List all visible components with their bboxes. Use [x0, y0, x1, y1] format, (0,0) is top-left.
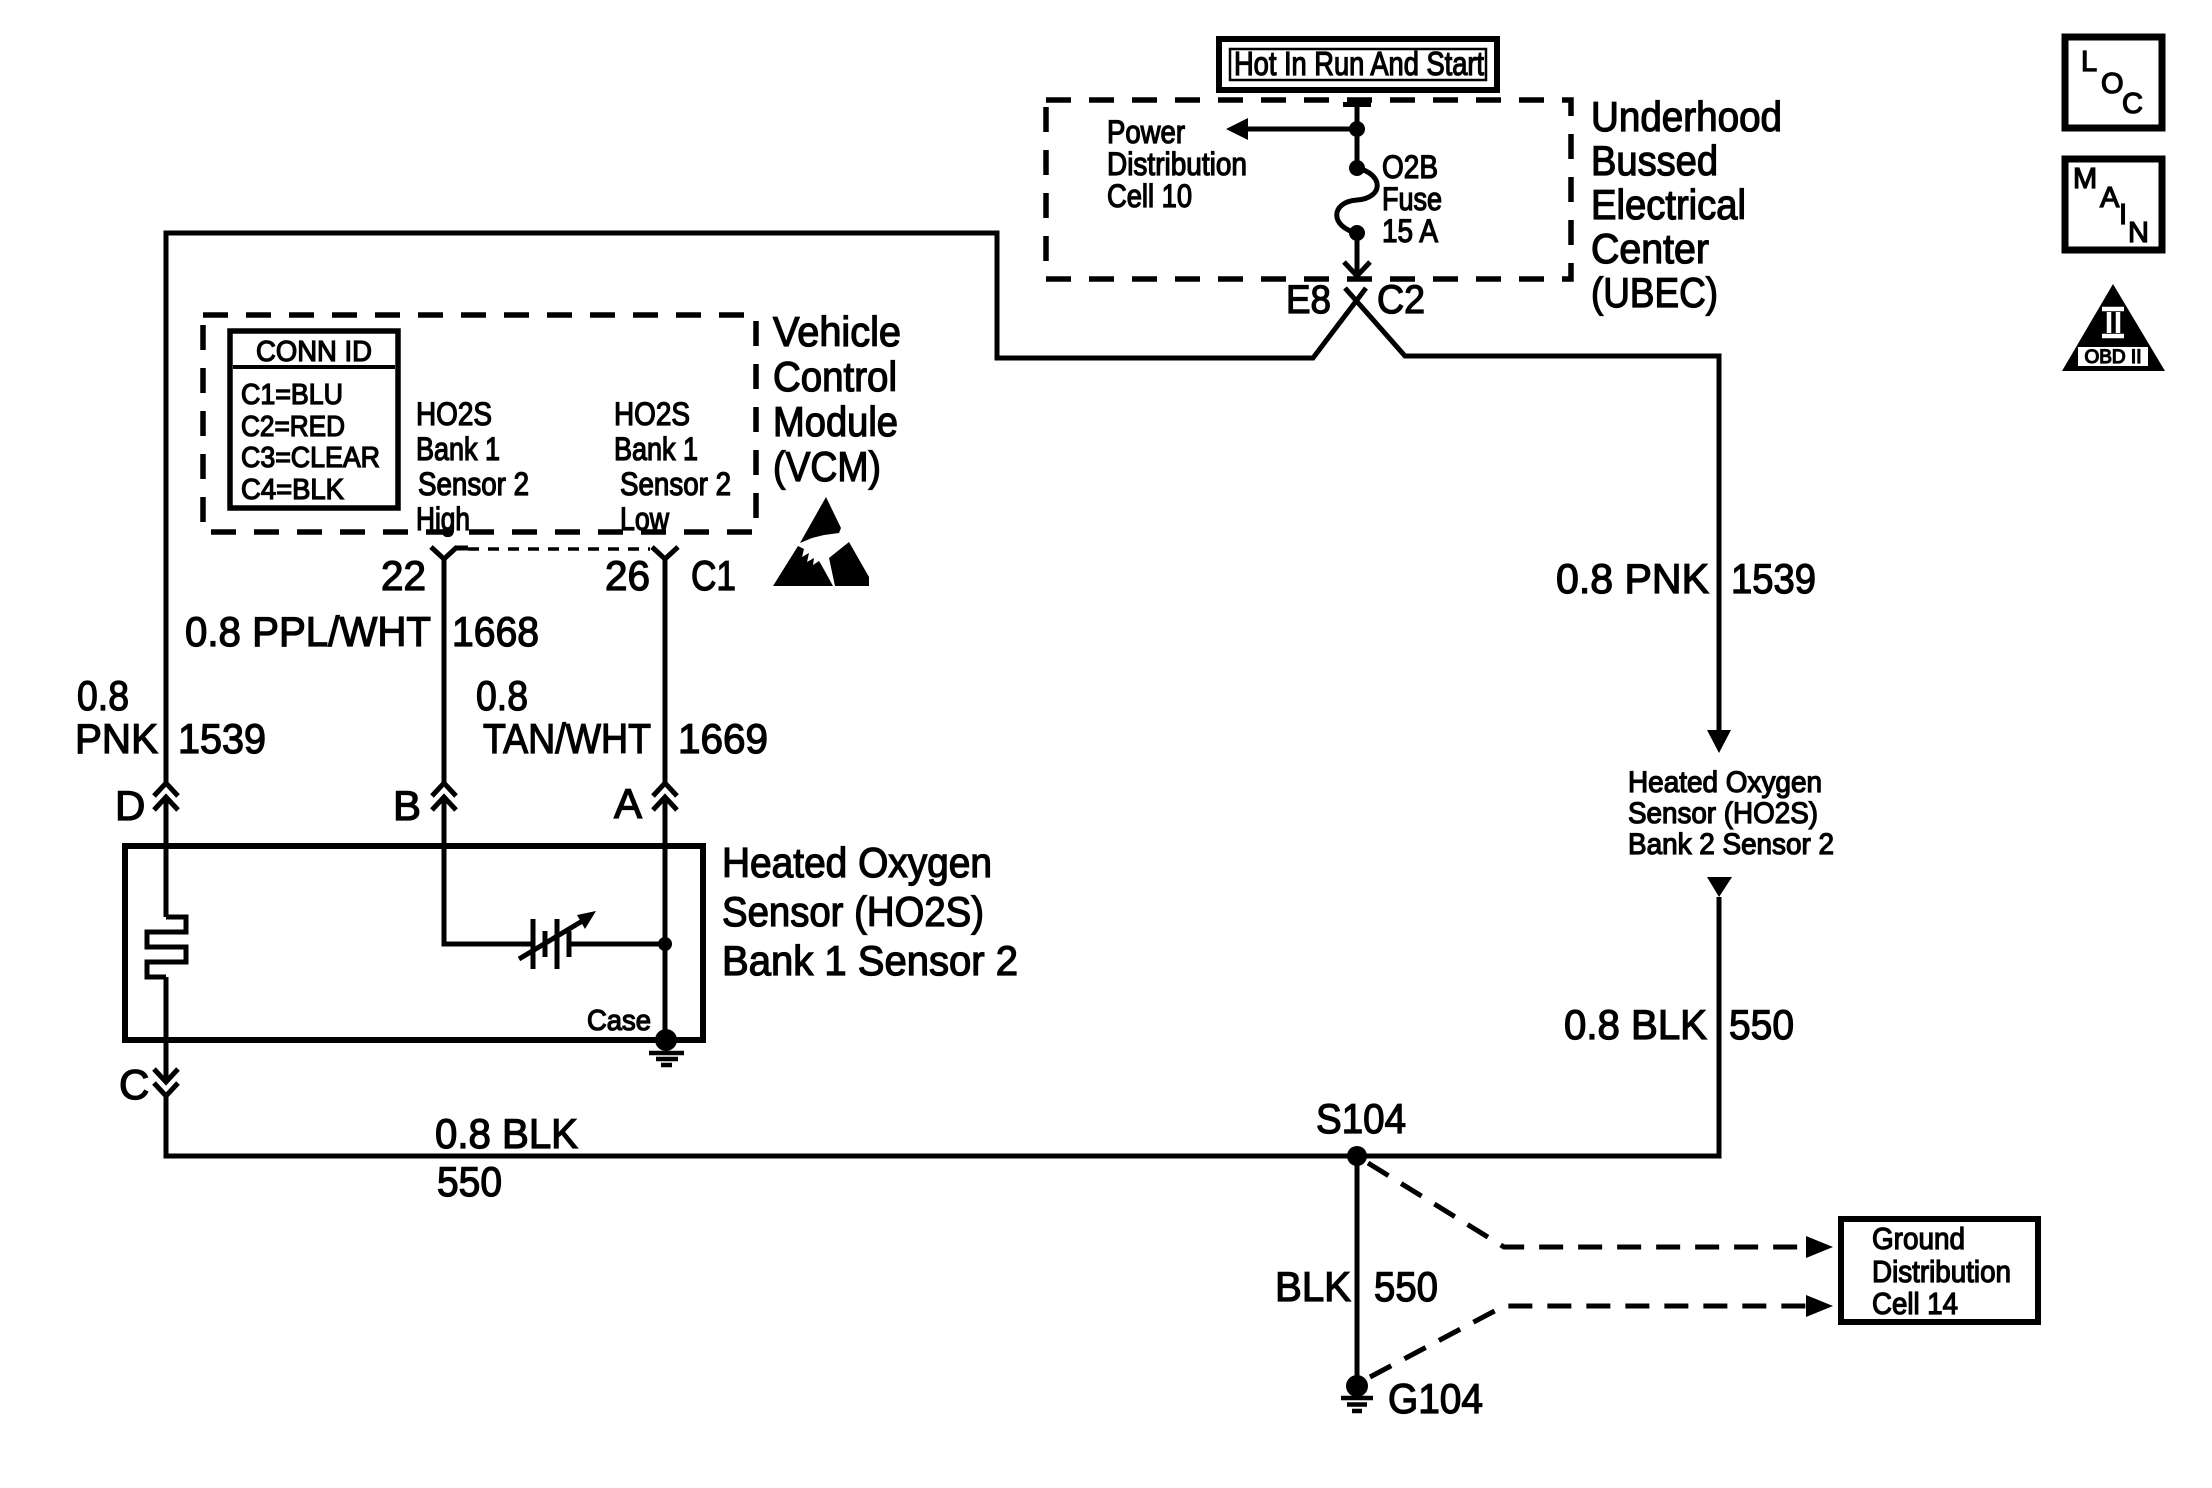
connector triangle resume below HO2S bank2 label	[1707, 877, 1732, 897]
wire left branch from E8/C2 splice down-left, across top, down left rail to pin D	[166, 233, 1366, 783]
svg-text:C2: C2	[1377, 278, 1425, 322]
svg-text:26: 26	[605, 552, 650, 599]
VCM dashed box	[203, 315, 756, 532]
wire S104 to G104	[1355, 1156, 1360, 1378]
arrowhead dashed branch 2 into ground distribution box	[1806, 1295, 1833, 1317]
svg-text:Distribution: Distribution	[1107, 146, 1247, 182]
wire D rail inside box top portion	[164, 797, 169, 917]
heater element HO2S bank1	[147, 917, 186, 977]
svg-text:550: 550	[437, 1158, 502, 1205]
Hot In Run And Start box	[1219, 39, 1497, 90]
open arrowhead at UBEC exit	[1344, 262, 1370, 276]
CONN ID table box	[230, 331, 398, 508]
CONN ID rows	[241, 379, 380, 506]
svg-text:O2B: O2B	[1382, 149, 1438, 185]
svg-text:I: I	[2119, 199, 2127, 231]
svg-text:A: A	[614, 780, 642, 827]
junction dot S104	[1347, 1146, 1367, 1166]
svg-text:Sensor (HO2S): Sensor (HO2S)	[1628, 797, 1818, 830]
sensor element plates	[533, 919, 569, 969]
arrowhead down into HO2S bank2 label	[1707, 730, 1731, 753]
HO2S bank1 box	[125, 846, 703, 1040]
svg-text:Hot In Run And Start: Hot In Run And Start	[1234, 45, 1484, 82]
svg-text:0.8 PNK: 0.8 PNK	[1556, 555, 1709, 602]
dashed wire S104 to ground distribution cell	[1368, 1163, 1806, 1247]
icon LOC	[2065, 37, 2162, 128]
fuse terminal dot top	[1349, 160, 1365, 176]
label Heated Oxygen Sensor (HO2S) Bank 2 Sensor 2	[1628, 766, 1834, 861]
label Power Distribution Cell 10	[1107, 114, 1247, 214]
svg-text:(VCM): (VCM)	[773, 443, 881, 490]
svg-text:Low: Low	[620, 501, 670, 537]
svg-text:C2=RED: C2=RED	[241, 411, 345, 443]
connector chevrons pin B	[432, 783, 456, 810]
svg-text:Bank 1 Sensor 2: Bank 1 Sensor 2	[722, 937, 1018, 984]
svg-text:Underhood: Underhood	[1591, 93, 1782, 140]
icon MAIN	[2065, 159, 2162, 250]
svg-text:Heated Oxygen: Heated Oxygen	[722, 839, 992, 886]
svg-text:Control: Control	[773, 353, 897, 400]
svg-text:Vehicle: Vehicle	[773, 308, 901, 355]
svg-text:0.8 BLK: 0.8 BLK	[1564, 1001, 1707, 1048]
svg-text:C1=BLU: C1=BLU	[241, 379, 343, 411]
wire A-pin 26 stem	[663, 559, 668, 783]
UBEC dashed box	[1046, 100, 1571, 279]
fuse terminal dot bottom	[1349, 225, 1365, 241]
svg-text:Power: Power	[1107, 114, 1185, 150]
svg-text:BLK: BLK	[1275, 1263, 1351, 1310]
arrowhead into power distribution (left)	[1226, 118, 1248, 140]
svg-text:Sensor (HO2S): Sensor (HO2S)	[722, 888, 984, 935]
wire T-bar at UBEC top	[1343, 102, 1371, 107]
svg-text:1539: 1539	[178, 715, 266, 762]
svg-text:Fuse: Fuse	[1382, 181, 1442, 217]
connector chevrons pin A	[653, 783, 677, 810]
svg-text:Cell 10: Cell 10	[1107, 178, 1192, 214]
wire sensor element to case node	[569, 942, 665, 947]
svg-text:Bank 1: Bank 1	[416, 431, 500, 467]
svg-text:TAN/WHT: TAN/WHT	[483, 715, 651, 762]
svg-text:CONN ID: CONN ID	[256, 336, 372, 368]
sensor variable arrow	[519, 920, 584, 959]
svg-text:Case: Case	[587, 1005, 651, 1037]
CONN ID header line	[233, 365, 395, 369]
svg-text:G104: G104	[1388, 1375, 1483, 1422]
svg-text:0.8: 0.8	[476, 672, 528, 719]
svg-text:Distribution: Distribution	[1872, 1254, 2011, 1289]
svg-text:C1: C1	[691, 552, 736, 599]
svg-text:C: C	[2122, 88, 2143, 120]
svg-text:1539: 1539	[1731, 555, 1816, 602]
svg-text:22: 22	[381, 552, 426, 599]
ground G104 dot	[1346, 1375, 1368, 1397]
svg-text:15 A: 15 A	[1382, 213, 1439, 249]
svg-text:M: M	[2073, 163, 2097, 195]
label Heated Oxygen Sensor (HO2S) Bank 1 Sensor 2	[722, 839, 1018, 984]
wire right branch from splice to HO2S bank2 feed	[1345, 288, 1719, 745]
connector chevrons pin D	[154, 783, 178, 810]
svg-text:D: D	[115, 782, 145, 829]
svg-text:B: B	[393, 782, 421, 829]
label Underhood Bussed Electrical Center (UBEC)	[1591, 93, 1782, 316]
svg-text:550: 550	[1374, 1263, 1438, 1310]
case ground bars	[649, 1053, 684, 1065]
C1 connector dashed boundary between pins 22 and 26	[468, 547, 650, 551]
junction dot at fuse branch	[1349, 121, 1365, 137]
junction dot sensor to case wire	[658, 937, 672, 951]
svg-text:1668: 1668	[452, 608, 539, 655]
svg-text:E8: E8	[1286, 278, 1331, 322]
svg-text:1669: 1669	[678, 715, 768, 762]
svg-text:(UBEC): (UBEC)	[1591, 269, 1718, 316]
arrowhead dashed branch 1 into ground distribution box	[1806, 1236, 1833, 1258]
ESD warning symbol	[773, 497, 869, 586]
svg-text:HO2S: HO2S	[614, 396, 690, 432]
svg-text:HO2S: HO2S	[416, 396, 492, 432]
svg-text:Bank 1: Bank 1	[614, 431, 698, 467]
label O2B Fuse 15 A	[1382, 149, 1442, 249]
wire C pin to bottom ground rail	[166, 897, 1719, 1156]
svg-text:Sensor 2: Sensor 2	[620, 466, 731, 502]
svg-text:Cell 14: Cell 14	[1872, 1286, 1958, 1321]
svg-text:High: High	[416, 501, 470, 537]
svg-text:L: L	[2081, 46, 2097, 78]
svg-text:Heated Oxygen: Heated Oxygen	[1628, 766, 1822, 799]
svg-text:0.8: 0.8	[77, 672, 129, 719]
wire heater to C pin	[164, 977, 169, 1082]
pin 26 Y connector	[652, 547, 678, 559]
icon OBD II triangle	[2062, 284, 2165, 371]
svg-text:OBD II: OBD II	[2084, 347, 2141, 368]
wire branch to power distribution	[1244, 127, 1357, 132]
svg-text:Electrical: Electrical	[1591, 181, 1746, 228]
svg-text:Ground: Ground	[1872, 1221, 1965, 1256]
wire fuse feed vertical in UBEC	[1355, 100, 1360, 168]
svg-text:Sensor 2: Sensor 2	[418, 466, 529, 502]
label HO2S Bank 1 Sensor 2 Low	[614, 396, 731, 537]
label HO2S Bank 1 Sensor 2 High	[416, 396, 529, 537]
svg-text:C: C	[119, 1061, 149, 1108]
ground G104 bars	[1341, 1398, 1373, 1411]
svg-text:S104: S104	[1316, 1095, 1406, 1142]
pin 22 Y connector	[431, 547, 468, 559]
Ground Distribution text	[1872, 1221, 2011, 1321]
svg-text:Module: Module	[773, 398, 898, 445]
connector chevrons pin C (down)	[154, 1069, 178, 1096]
svg-text:0.8 BLK: 0.8 BLK	[435, 1110, 578, 1157]
case ground dot	[655, 1029, 677, 1051]
label Vehicle Control Module (VCM)	[773, 308, 901, 490]
svg-text:550: 550	[1729, 1001, 1794, 1048]
fuse O2B squiggle	[1337, 168, 1378, 233]
svg-text:Bussed: Bussed	[1591, 137, 1718, 184]
Ground Distribution box	[1841, 1219, 2038, 1322]
svg-text:O: O	[2101, 68, 2124, 100]
svg-text:A: A	[2100, 182, 2120, 214]
svg-text:PNK: PNK	[75, 715, 158, 762]
svg-text:C4=BLK: C4=BLK	[241, 474, 345, 506]
svg-text:0.8 PPL/WHT: 0.8 PPL/WHT	[185, 608, 431, 655]
svg-text:Center: Center	[1591, 225, 1709, 272]
wire A below connector down to case ground	[663, 797, 668, 1036]
wire B-pin 22 stem down to connector	[442, 559, 447, 783]
wire B below connector into HO2S box to sensor element	[444, 797, 533, 944]
sensor arrowhead	[577, 911, 596, 929]
svg-text:Bank 2 Sensor 2: Bank 2 Sensor 2	[1628, 828, 1834, 861]
svg-text:N: N	[2128, 217, 2149, 249]
wire fuse output	[1355, 233, 1360, 274]
svg-text:C3=CLEAR: C3=CLEAR	[241, 442, 380, 474]
dashed wire G104 to ground distribution cell	[1370, 1306, 1806, 1377]
